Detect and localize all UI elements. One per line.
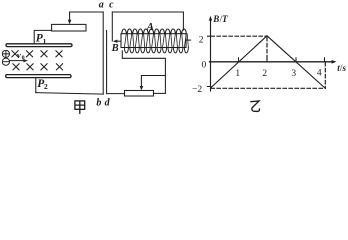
capacitor plate P2 <box>6 75 71 78</box>
axis ticks x <box>239 58 325 62</box>
svg-text:b: b <box>96 97 101 108</box>
wire vertical terminal c (top) <box>111 12 113 41</box>
velocity v0 arrow <box>10 60 26 62</box>
svg-text:1: 1 <box>43 37 47 46</box>
wire vertical terminal a-b <box>102 12 104 94</box>
coil A body box <box>121 34 186 48</box>
wire rheostat right end <box>154 92 166 94</box>
dashed vertical t=2 <box>266 38 268 62</box>
wire from R left end <box>34 30 51 43</box>
dashed level +2 <box>211 35 266 37</box>
coil arches <box>122 29 186 34</box>
wire rheostat slider branch <box>141 76 165 88</box>
wire rheostat left to terminal d <box>107 93 125 95</box>
dashed vertical t=4 <box>324 63 326 89</box>
label 乙 <box>250 101 259 111</box>
B field arrow <box>116 40 121 42</box>
svg-text:a: a <box>99 0 104 11</box>
B(t) waveform <box>211 36 326 89</box>
graph y-axis <box>210 19 212 92</box>
svg-text:c: c <box>109 0 114 11</box>
field crosses row 1 <box>12 51 18 57</box>
rheostat box <box>125 91 154 97</box>
negative particle symbol <box>2 58 9 65</box>
svg-text:4: 4 <box>317 68 322 78</box>
wire coil left end down <box>122 51 165 94</box>
wire top horizontal of coil circuit <box>112 11 183 13</box>
coil lower loops <box>124 48 188 53</box>
resistor R (top, device 甲) <box>52 24 86 31</box>
svg-text:T: T <box>222 14 228 24</box>
svg-text:s: s <box>342 63 347 73</box>
svg-text:−2: −2 <box>192 85 202 95</box>
capacitor plate P1 <box>6 44 72 47</box>
svg-text:2: 2 <box>199 36 204 46</box>
svg-text:v: v <box>17 50 21 60</box>
wire slider arrow onto R <box>69 12 71 21</box>
svg-text:A: A <box>146 21 154 33</box>
label 甲 <box>75 101 85 114</box>
wire from P2 down to bottom rail <box>35 77 37 92</box>
svg-text:1: 1 <box>235 69 240 79</box>
axis ticks y <box>208 36 212 86</box>
svg-text:0: 0 <box>202 60 207 70</box>
wire bottom horizontal 甲 to terminal b <box>36 93 103 95</box>
svg-text:2: 2 <box>44 82 48 91</box>
svg-text:B: B <box>111 43 119 54</box>
wire vertical terminal d <box>106 31 108 94</box>
svg-text:3: 3 <box>291 69 296 79</box>
svg-text:2: 2 <box>262 69 267 79</box>
coil right stub <box>186 39 191 41</box>
svg-text:0: 0 <box>22 56 25 62</box>
positive particle symbol <box>2 50 9 57</box>
dashed level -2 <box>211 87 325 89</box>
field crosses row 2 <box>13 64 19 70</box>
wire top horizontal 甲 to terminal a <box>70 11 104 13</box>
wire down to coil right end <box>182 12 184 30</box>
coil winding lines <box>124 34 188 48</box>
svg-text:B: B <box>212 14 219 24</box>
graph x-axis <box>210 61 334 63</box>
